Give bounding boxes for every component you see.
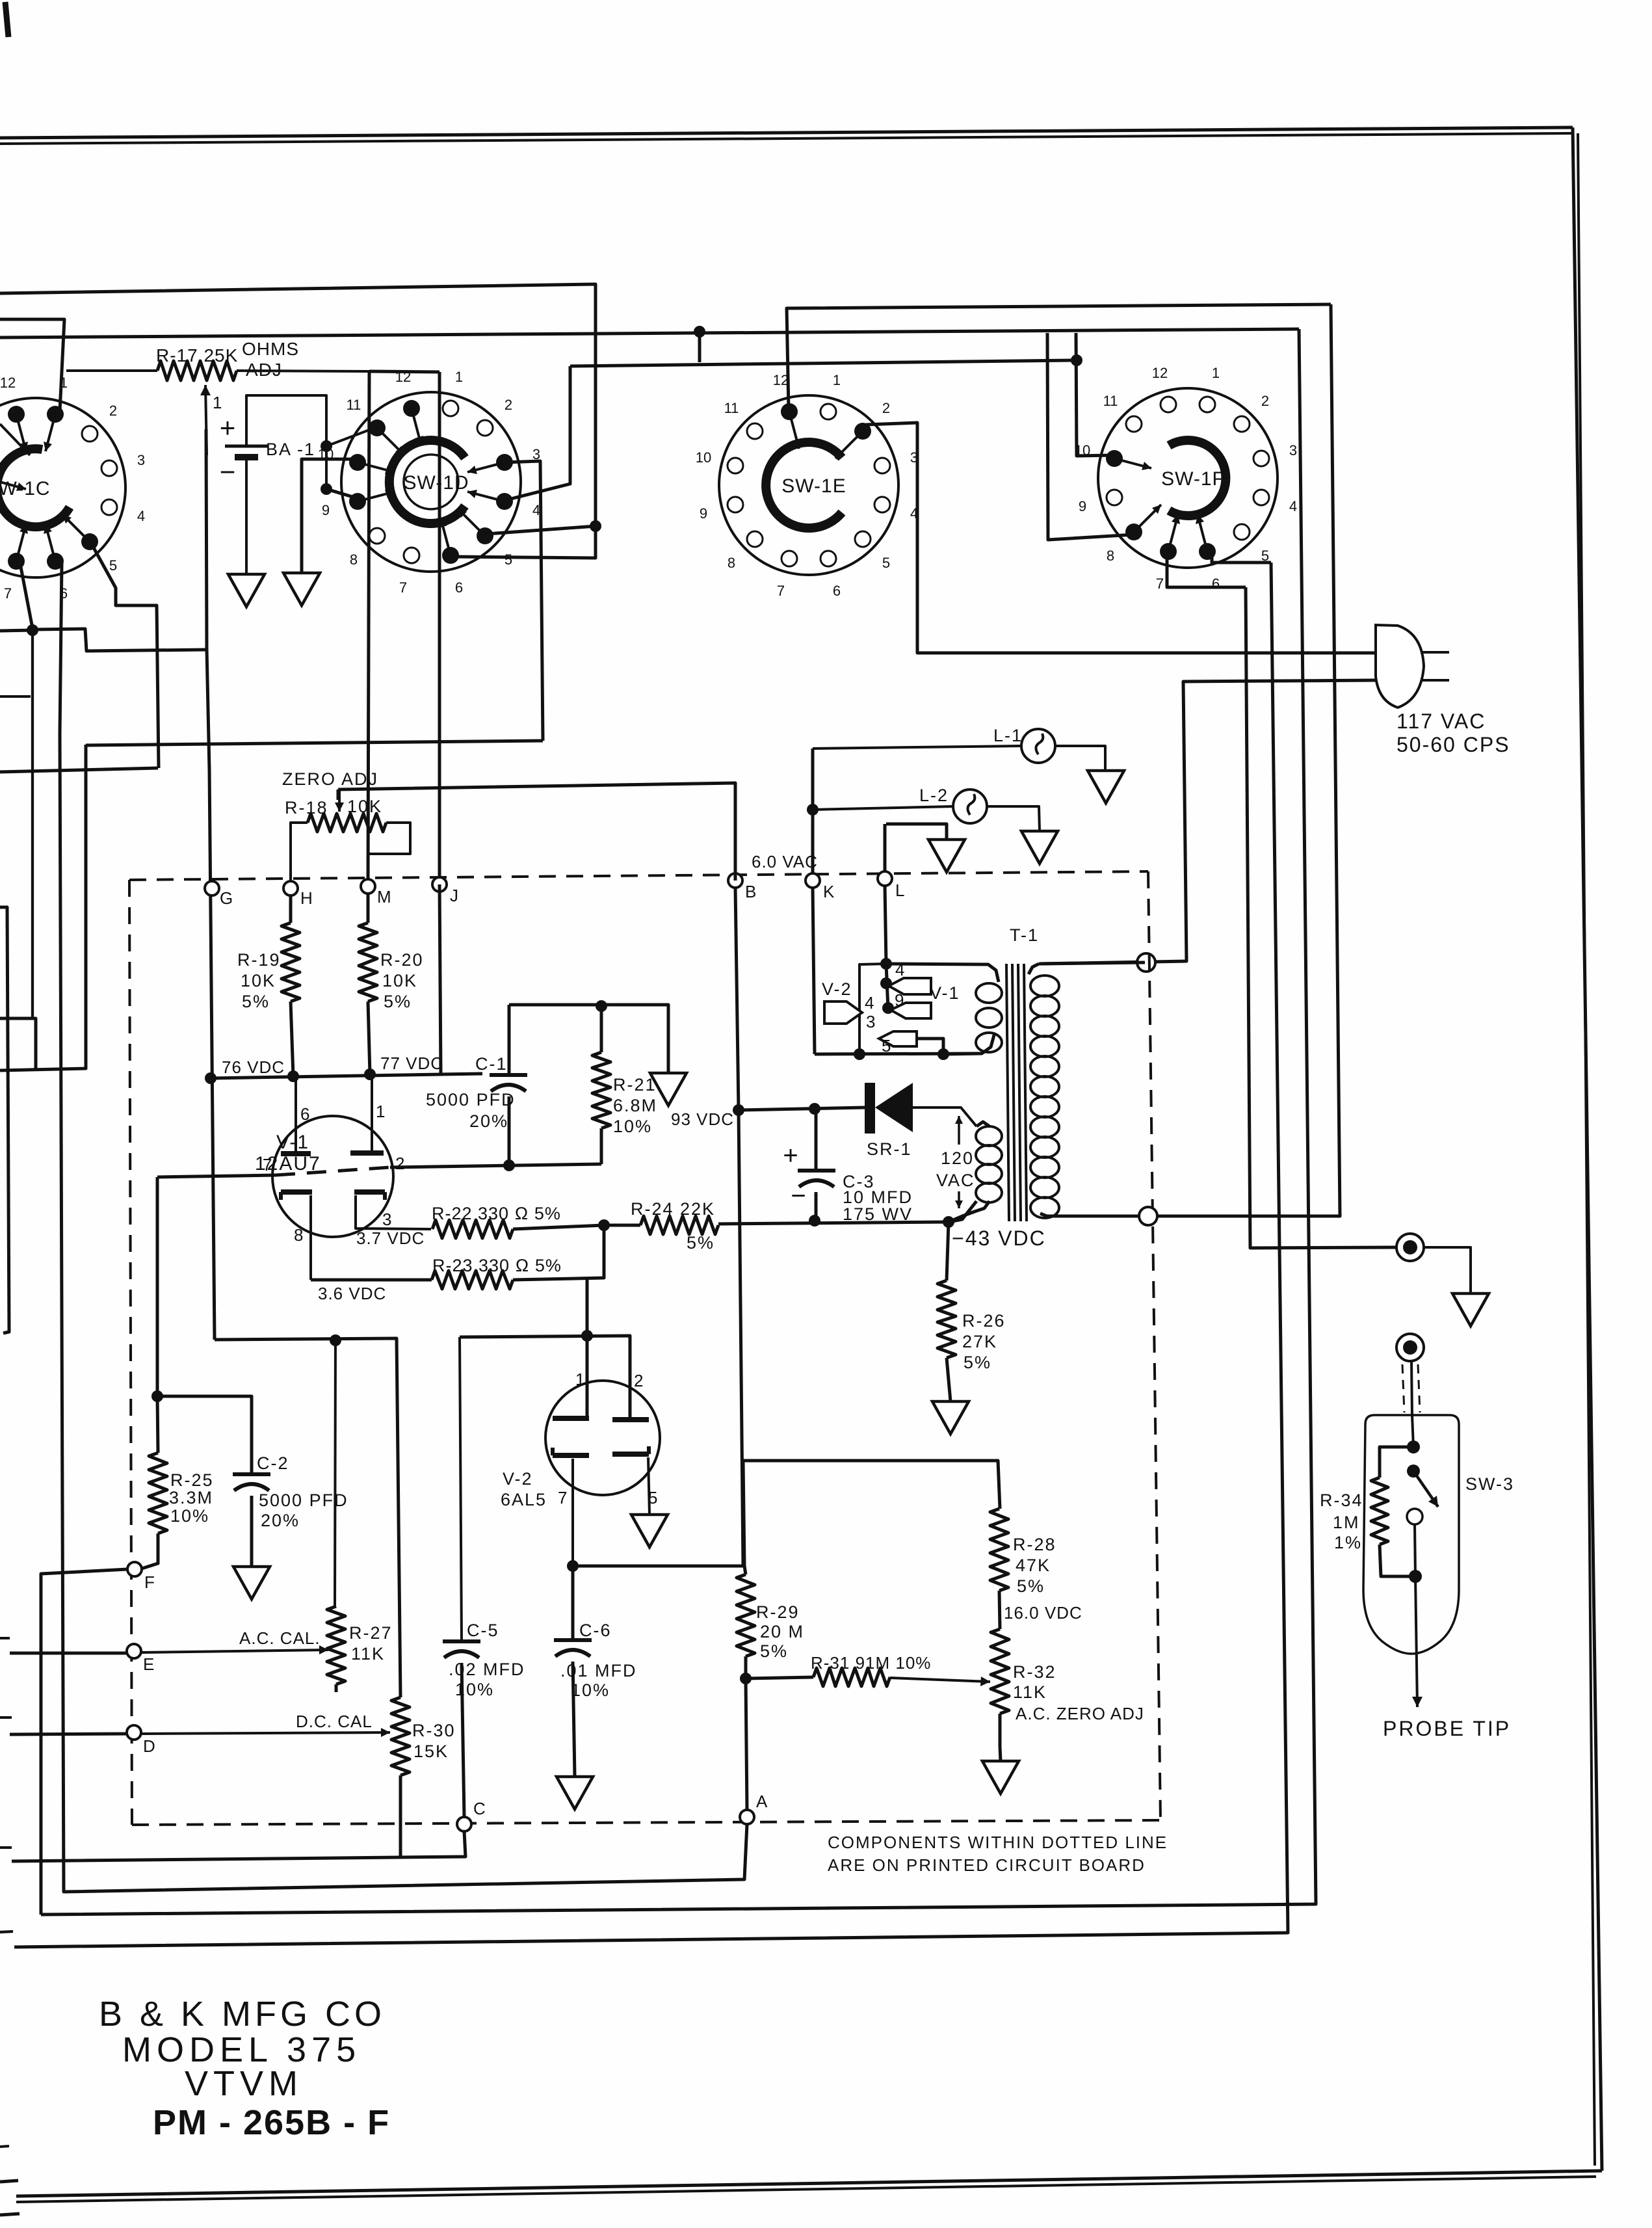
wire SW-1D pin11 bbox=[326, 426, 380, 446]
svg-text:6: 6 bbox=[455, 579, 463, 596]
wire left riser to node A bbox=[60, 734, 747, 1892]
wire R-29 to node A bbox=[746, 1678, 747, 1810]
svg-text:M: M bbox=[377, 887, 391, 907]
svg-text:MODEL 375: MODEL 375 bbox=[122, 2030, 361, 2069]
svg-text:OHMS: OHMS bbox=[242, 339, 299, 359]
svg-text:6.0 VAC: 6.0 VAC bbox=[752, 852, 818, 871]
diode SR-1 bbox=[865, 1083, 875, 1134]
wire 93VDC vertical bbox=[735, 888, 743, 1566]
svg-text:9: 9 bbox=[322, 502, 330, 518]
svg-text:R-34: R-34 bbox=[1320, 1491, 1363, 1510]
wire node L upper ground branch bbox=[886, 824, 947, 840]
resistor R-20 bbox=[367, 894, 370, 923]
wire battery to ground bbox=[245, 457, 248, 574]
wire left step x132 bbox=[0, 745, 86, 1070]
wire R-17 wiper vertical bbox=[205, 385, 207, 455]
svg-text:5: 5 bbox=[109, 557, 117, 574]
wire C-1/R-21 top bbox=[509, 1005, 668, 1073]
wire V-2 out to R-29/R-28 riser bbox=[573, 1461, 1000, 1566]
svg-text:10: 10 bbox=[1075, 442, 1090, 458]
ground bbox=[1021, 831, 1058, 864]
svg-text:15K: 15K bbox=[413, 1742, 449, 1761]
node G bbox=[205, 881, 219, 895]
svg-text:VAC: VAC bbox=[936, 1171, 975, 1190]
ground bbox=[228, 574, 265, 607]
svg-text:ADJ: ADJ bbox=[246, 360, 282, 380]
svg-text:B: B bbox=[745, 882, 756, 901]
resistor R-26 bbox=[947, 1222, 949, 1280]
svg-text:1: 1 bbox=[575, 1370, 584, 1389]
node J bbox=[432, 877, 447, 892]
node H bbox=[283, 881, 298, 895]
lamp L-1 bbox=[1021, 729, 1055, 763]
svg-text:1: 1 bbox=[1212, 365, 1220, 381]
svg-text:L: L bbox=[895, 881, 904, 900]
wire line L2 to node B bbox=[338, 783, 735, 881]
svg-text:6.8M: 6.8M bbox=[613, 1096, 657, 1115]
triode V-1 12AU7 bbox=[272, 1116, 393, 1237]
T-1 heater winding bbox=[886, 964, 999, 982]
V-2 cathode bar left bbox=[553, 1453, 589, 1458]
jack J1 (AC/OHMS) bbox=[1396, 1234, 1424, 1261]
svg-text:R-32: R-32 bbox=[1013, 1662, 1056, 1682]
node F bbox=[127, 1562, 142, 1576]
svg-text:12: 12 bbox=[0, 375, 16, 391]
svg-text:3: 3 bbox=[866, 1012, 875, 1031]
svg-text:10K: 10K bbox=[382, 971, 417, 990]
resistor R-25 bbox=[157, 1396, 158, 1453]
potentiometer R-18 bbox=[337, 789, 340, 800]
svg-text:8: 8 bbox=[350, 551, 358, 568]
wire 93VDC to SR-1 bbox=[739, 1107, 865, 1110]
resistor R-34 bbox=[1380, 1447, 1413, 1478]
svg-text:T-1: T-1 bbox=[1010, 925, 1039, 945]
resistor R-29 bbox=[744, 1566, 746, 1574]
resistor R-17 bbox=[157, 361, 237, 380]
svg-text:R-23 330 Ω 5%: R-23 330 Ω 5% bbox=[432, 1256, 562, 1275]
svg-text:D.C. CAL: D.C. CAL bbox=[296, 1712, 373, 1731]
svg-text:12: 12 bbox=[1152, 365, 1168, 381]
svg-text:R-20: R-20 bbox=[380, 950, 424, 970]
wire SR-1 to T-1 bbox=[913, 1107, 977, 1126]
svg-text:3.3M: 3.3M bbox=[169, 1488, 213, 1507]
svg-text:4: 4 bbox=[137, 508, 145, 524]
wire V-1 pin1 lead bbox=[371, 1074, 373, 1153]
svg-text:.01 MFD: .01 MFD bbox=[560, 1661, 637, 1680]
svg-text:F: F bbox=[144, 1572, 155, 1592]
svg-text:3: 3 bbox=[137, 452, 145, 468]
svg-text:−: − bbox=[791, 1182, 806, 1210]
wire battery to SW-1D bbox=[246, 395, 326, 491]
svg-text:BA -1: BA -1 bbox=[266, 440, 315, 459]
wire V-1 grid to R-25 bbox=[156, 1177, 159, 1396]
svg-text:10%: 10% bbox=[170, 1506, 209, 1526]
wire left step x55 bbox=[0, 1018, 36, 1070]
svg-text:R-30: R-30 bbox=[412, 1721, 456, 1740]
wire SW-1C pin7 drop bbox=[21, 567, 33, 628]
wire C-5 top bbox=[460, 1337, 462, 1641]
svg-text:3.6 VDC: 3.6 VDC bbox=[318, 1284, 386, 1303]
wire V-2 plate feeds bbox=[460, 1336, 630, 1420]
svg-text:R-19: R-19 bbox=[237, 950, 281, 970]
wire vertical bus B bbox=[14, 563, 1288, 1947]
svg-text:27K: 27K bbox=[962, 1332, 997, 1351]
wire heater rail (node K) bbox=[815, 1054, 982, 1054]
potentiometer R-30 bbox=[391, 1697, 410, 1775]
resistor R-19 bbox=[289, 895, 293, 923]
svg-text:L-2: L-2 bbox=[919, 786, 949, 805]
svg-text:A.C. ZERO ADJ: A.C. ZERO ADJ bbox=[1016, 1704, 1144, 1723]
svg-text:4: 4 bbox=[1289, 498, 1297, 514]
capacitor C-3 bbox=[815, 1109, 818, 1171]
capacitor C-2 plates bbox=[233, 1472, 270, 1476]
wire to L-1 bbox=[813, 746, 1021, 749]
ground bbox=[932, 1401, 969, 1434]
AC plug bbox=[1376, 625, 1424, 708]
V-1 heater arrows bbox=[886, 964, 888, 1009]
wire SW-1F pin6 to vertical B bbox=[1212, 557, 1271, 563]
svg-text:2: 2 bbox=[505, 397, 512, 413]
svg-text:ZERO ADJ: ZERO ADJ bbox=[282, 769, 378, 789]
potentiometer R-32 bbox=[991, 1629, 1009, 1714]
svg-text:11: 11 bbox=[1103, 393, 1118, 409]
svg-text:77 VDC: 77 VDC bbox=[380, 1054, 443, 1073]
wire J vertical bbox=[369, 371, 439, 372]
wire M vertical (R-17 right to node M) bbox=[368, 371, 369, 886]
svg-text:20 M: 20 M bbox=[760, 1622, 804, 1641]
svg-text:PROBE TIP: PROBE TIP bbox=[1383, 1717, 1511, 1740]
page border frame bbox=[0, 127, 1573, 138]
svg-text:+: + bbox=[220, 412, 236, 443]
svg-text:2: 2 bbox=[1261, 393, 1269, 409]
svg-text:C-5: C-5 bbox=[467, 1621, 499, 1640]
wire SW-1E pin2 to plug prong1 bbox=[866, 423, 1377, 653]
svg-text:47K: 47K bbox=[1016, 1556, 1051, 1575]
svg-text:11K: 11K bbox=[351, 1644, 385, 1664]
svg-text:C-1: C-1 bbox=[475, 1054, 508, 1074]
wire SW-1D pin5 bbox=[487, 526, 596, 534]
svg-text:10%: 10% bbox=[571, 1680, 610, 1700]
V-2 plate bar left bbox=[553, 1416, 589, 1421]
svg-text:D: D bbox=[143, 1736, 155, 1756]
capacitor C-1 bbox=[508, 1005, 511, 1075]
resistor R-28 bbox=[990, 1509, 1008, 1591]
svg-text:3.7 VDC: 3.7 VDC bbox=[356, 1228, 425, 1248]
svg-text:7: 7 bbox=[263, 1155, 272, 1174]
svg-text:20%: 20% bbox=[469, 1111, 508, 1131]
capacitor C-6 bbox=[567, 1560, 579, 1572]
svg-text:7: 7 bbox=[777, 583, 785, 599]
V-2 plate bar right bbox=[612, 1417, 649, 1422]
V-1 cathode bar right bbox=[354, 1189, 385, 1195]
ground bbox=[1088, 771, 1124, 803]
T-1 core bbox=[1012, 964, 1015, 1221]
svg-text:5%: 5% bbox=[1017, 1576, 1045, 1596]
T-1 core bbox=[1024, 964, 1027, 1221]
svg-text:SR-1: SR-1 bbox=[867, 1139, 912, 1159]
wire vertical bus D bbox=[1060, 304, 1340, 1216]
SW-1C left edge arrows bbox=[0, 424, 30, 455]
svg-text:1%: 1% bbox=[1334, 1533, 1362, 1552]
svg-text:−43 VDC: −43 VDC bbox=[952, 1227, 1046, 1250]
svg-text:3: 3 bbox=[382, 1210, 391, 1229]
battery BA-1 bbox=[225, 445, 268, 448]
svg-text:L-1: L-1 bbox=[993, 726, 1023, 745]
wire left stub x11 bbox=[0, 907, 9, 1333]
svg-text:10: 10 bbox=[696, 449, 711, 466]
rotary switch SW-1C bbox=[0, 398, 125, 577]
node B bbox=[728, 873, 742, 888]
wire top bus B bbox=[0, 329, 1299, 338]
node K bbox=[806, 873, 820, 888]
duo-diode V-2 6AL5 bbox=[545, 1381, 660, 1495]
svg-text:120: 120 bbox=[941, 1148, 974, 1168]
svg-text:5: 5 bbox=[882, 555, 890, 571]
svg-text:E: E bbox=[143, 1654, 154, 1674]
wire vertical bus C bbox=[41, 329, 1316, 1915]
ground bbox=[557, 1777, 593, 1809]
svg-text:6: 6 bbox=[1212, 576, 1220, 592]
ground bbox=[928, 840, 965, 872]
svg-text:10K: 10K bbox=[241, 971, 276, 990]
svg-text:C-6: C-6 bbox=[579, 1621, 612, 1640]
svg-text:5: 5 bbox=[882, 1036, 891, 1055]
wire V-1 pin8 bbox=[309, 1195, 312, 1280]
svg-text:76 VDC: 76 VDC bbox=[222, 1057, 285, 1077]
svg-text:V-2: V-2 bbox=[503, 1469, 533, 1489]
wire R-18 right bbox=[369, 823, 410, 854]
svg-text:+: + bbox=[783, 1141, 798, 1170]
svg-text:V-1: V-1 bbox=[930, 983, 960, 1003]
dashed printed-circuit-board boundary bbox=[129, 871, 1148, 880]
svg-text:C-2: C-2 bbox=[257, 1453, 289, 1473]
svg-text:−: − bbox=[220, 457, 236, 487]
svg-text:2: 2 bbox=[109, 403, 117, 419]
svg-text:A: A bbox=[756, 1792, 768, 1811]
svg-text:5: 5 bbox=[648, 1488, 657, 1507]
wire node F left bbox=[41, 1569, 127, 1915]
left stub bbox=[0, 695, 31, 698]
wire jack2 to probe bbox=[1411, 1361, 1412, 1415]
svg-text:ARE ON PRINTED CIRCUIT BOA: ARE ON PRINTED CIRCUIT BOARD bbox=[828, 1855, 1146, 1875]
capacitor C-6 plates bbox=[554, 1638, 592, 1642]
capacitor C-5 plates bbox=[443, 1639, 480, 1643]
T-1 120V winding bbox=[977, 1122, 990, 1126]
rotary switch SW-1F bbox=[1098, 388, 1278, 568]
svg-text:SW-1E: SW-1E bbox=[781, 475, 846, 497]
capacitor C-2 bbox=[157, 1396, 252, 1474]
wire SW-1D pin9/10 to ground bbox=[302, 459, 360, 573]
svg-text:SW-1F: SW-1F bbox=[1161, 468, 1225, 490]
wire L-1 to ground bbox=[1055, 746, 1105, 771]
svg-text:7: 7 bbox=[399, 579, 407, 596]
svg-text:COMPONENTS WITHIN DOTTED LI: COMPONENTS WITHIN DOTTED LINE bbox=[828, 1833, 1168, 1852]
svg-text:R-28: R-28 bbox=[1013, 1535, 1056, 1554]
svg-text:117 VAC: 117 VAC bbox=[1396, 710, 1486, 733]
svg-text:4: 4 bbox=[865, 993, 874, 1013]
svg-text:1: 1 bbox=[213, 393, 222, 412]
left edge stubs bbox=[0, 1637, 10, 1639]
wire plug prong2 bbox=[1039, 680, 1377, 964]
wire SW-1F pin8 drop bbox=[1047, 333, 1134, 540]
node A bbox=[740, 1810, 754, 1824]
wire top bus A bbox=[0, 284, 596, 558]
jack J2 (DC probe) bbox=[1396, 1334, 1424, 1361]
svg-text:9: 9 bbox=[700, 505, 707, 522]
svg-text:C: C bbox=[473, 1799, 486, 1818]
svg-text:5%: 5% bbox=[964, 1353, 991, 1372]
svg-text:2: 2 bbox=[882, 400, 890, 416]
svg-text:R-26: R-26 bbox=[962, 1311, 1006, 1331]
svg-text:16.0 VDC: 16.0 VDC bbox=[1004, 1603, 1082, 1623]
rotary switch SW-1E bbox=[719, 395, 898, 575]
svg-text:6: 6 bbox=[833, 583, 841, 599]
svg-text:B & K MFG CO: B & K MFG CO bbox=[99, 1995, 386, 2034]
svg-text:R-27: R-27 bbox=[349, 1623, 393, 1643]
wire bus D (SW-1E pin12 to vertical D) bbox=[787, 304, 1331, 410]
svg-text:R-21: R-21 bbox=[613, 1075, 657, 1094]
T-1 core bbox=[1018, 964, 1021, 1221]
svg-text:7: 7 bbox=[4, 585, 12, 602]
svg-text:1M: 1M bbox=[1333, 1513, 1360, 1532]
ground bbox=[233, 1567, 270, 1599]
wire SW-1C pin5 drop bbox=[91, 543, 159, 768]
node E bbox=[127, 1644, 141, 1658]
probe body SW-3 bbox=[1363, 1415, 1459, 1654]
wire V-2 pin7 bbox=[571, 1459, 574, 1566]
svg-text:5: 5 bbox=[505, 551, 512, 568]
node C bbox=[457, 1817, 471, 1831]
wire SW-1D pin3 bbox=[505, 461, 543, 741]
svg-text:9: 9 bbox=[1079, 498, 1086, 514]
svg-text:50-60 CPS: 50-60 CPS bbox=[1396, 733, 1510, 756]
svg-text:2: 2 bbox=[395, 1154, 404, 1173]
resistor R-21 bbox=[600, 1006, 603, 1052]
svg-text:7: 7 bbox=[558, 1488, 567, 1507]
svg-text:R-18: R-18 bbox=[285, 798, 328, 817]
svg-text:J: J bbox=[450, 886, 458, 905]
wire V-1 pin6 lead bbox=[295, 1076, 297, 1154]
svg-text:6: 6 bbox=[300, 1104, 309, 1124]
svg-text:G: G bbox=[220, 888, 233, 908]
wire R-18 left to H bbox=[291, 823, 308, 881]
svg-text:1: 1 bbox=[455, 369, 463, 385]
svg-text:4: 4 bbox=[895, 960, 904, 979]
svg-text:5%: 5% bbox=[760, 1641, 788, 1661]
wire switch to tip bbox=[1415, 1524, 1415, 1576]
svg-text:175 WV: 175 WV bbox=[843, 1204, 913, 1224]
svg-text:R-17 25K: R-17 25K bbox=[156, 345, 238, 365]
svg-text:A.C. CAL.: A.C. CAL. bbox=[239, 1628, 321, 1648]
node D bbox=[127, 1725, 141, 1740]
svg-text:8: 8 bbox=[728, 555, 735, 571]
svg-text:V-1: V-1 bbox=[276, 1132, 309, 1153]
svg-text:7: 7 bbox=[1156, 576, 1164, 592]
wire heater loop left bbox=[859, 964, 886, 1054]
svg-text:R-25: R-25 bbox=[170, 1470, 214, 1490]
ground bbox=[631, 1515, 668, 1547]
wire busB-busC tie bbox=[698, 332, 701, 362]
wire -43VDC node bbox=[949, 1201, 977, 1222]
svg-text:8: 8 bbox=[294, 1225, 303, 1245]
svg-text:11K: 11K bbox=[1013, 1682, 1047, 1702]
svg-text:12: 12 bbox=[395, 369, 411, 385]
svg-text:.02 MFD: .02 MFD bbox=[449, 1660, 525, 1679]
wire node C bottom bbox=[12, 1831, 465, 1861]
wire SW-1F pin7 to vertical A bbox=[1167, 556, 1246, 587]
V-1 cathode bar left bbox=[281, 1189, 312, 1195]
svg-text:6AL5: 6AL5 bbox=[501, 1490, 547, 1509]
capacitor C-3 plates bbox=[798, 1169, 835, 1173]
wire jack to ground bbox=[1424, 1247, 1471, 1293]
V-2 cathode bar right bbox=[612, 1452, 649, 1457]
svg-text:11: 11 bbox=[724, 400, 739, 416]
ground bbox=[982, 1761, 1019, 1794]
wire V-1 pin3 bbox=[356, 1195, 431, 1229]
svg-text:5000 PFD: 5000 PFD bbox=[426, 1090, 516, 1109]
wire SW-1F pin10 drop bbox=[1076, 333, 1113, 456]
wire rail to R-30/C-5 bbox=[215, 1338, 400, 1697]
wire to L-2 bbox=[813, 806, 953, 810]
wire SW-1C pin1 feed bbox=[0, 319, 64, 411]
wire R-17 right bbox=[237, 371, 369, 371]
svg-text:10%: 10% bbox=[455, 1680, 494, 1699]
wire to R-27 top bbox=[335, 1340, 335, 1606]
node L bbox=[878, 871, 892, 886]
svg-text:8: 8 bbox=[1107, 548, 1114, 564]
svg-text:10K: 10K bbox=[347, 797, 382, 816]
V-2 heater arrow bbox=[824, 1001, 862, 1024]
svg-text:1: 1 bbox=[833, 372, 841, 388]
plug prong bbox=[1423, 679, 1449, 682]
svg-text:2: 2 bbox=[634, 1371, 643, 1390]
potentiometer R-27 bbox=[327, 1606, 345, 1684]
wire node L vertical bbox=[884, 824, 887, 879]
svg-text:9: 9 bbox=[895, 990, 904, 1010]
wire left riser L1 bbox=[0, 768, 158, 772]
wire node K vertical bbox=[811, 749, 815, 881]
svg-text:12: 12 bbox=[773, 372, 789, 388]
svg-text:K: K bbox=[823, 882, 835, 901]
ground bbox=[650, 1073, 687, 1106]
svg-text:5%: 5% bbox=[242, 992, 270, 1011]
wire SW-1C pin6 drop bbox=[60, 563, 62, 734]
wire vertical bus A bbox=[1246, 587, 1397, 1248]
T-1 core bbox=[1006, 964, 1009, 1221]
svg-text:11: 11 bbox=[347, 397, 361, 413]
svg-text:3: 3 bbox=[1289, 442, 1297, 458]
svg-text:VTVM: VTVM bbox=[185, 2064, 303, 2103]
svg-text:H: H bbox=[300, 888, 313, 908]
lamp L-2 bbox=[953, 789, 987, 823]
wire L-2 to ground bbox=[987, 806, 1040, 831]
svg-text:5%: 5% bbox=[384, 992, 412, 1011]
rotary switch SW-1D bbox=[341, 392, 521, 572]
svg-text:V-2: V-2 bbox=[822, 979, 852, 999]
wire probe top bbox=[1412, 1415, 1413, 1447]
wire R-17 left bbox=[66, 369, 157, 372]
svg-text:R-29: R-29 bbox=[756, 1602, 800, 1622]
wire V-1 grid rail bbox=[157, 1175, 276, 1177]
wire 76VDC rail bbox=[211, 1074, 442, 1078]
ground bbox=[283, 573, 320, 605]
svg-text:5%: 5% bbox=[687, 1233, 715, 1253]
svg-text:93 VDC: 93 VDC bbox=[671, 1109, 734, 1129]
svg-text:20%: 20% bbox=[261, 1511, 300, 1530]
wire V-2 pin5 bbox=[648, 1457, 649, 1515]
svg-text:SW-3: SW-3 bbox=[1465, 1474, 1514, 1494]
plug prong bbox=[1421, 651, 1449, 654]
